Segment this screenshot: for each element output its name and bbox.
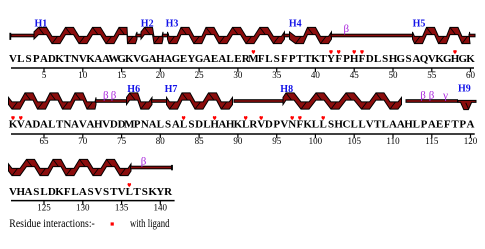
helix H5 ribbon (413, 27, 471, 43)
svg-text:65: 65 (40, 136, 50, 146)
svg-text:Residue interactions:-: Residue interactions:- (9, 218, 95, 230)
svg-text:45: 45 (350, 70, 360, 80)
svg-text:30: 30 (233, 70, 243, 80)
svg-text:135: 135 (115, 202, 129, 212)
svg-text:H3: H3 (166, 18, 179, 29)
svg-text:H9: H9 (458, 84, 471, 95)
svg-text:105: 105 (347, 136, 361, 146)
svg-text:80: 80 (156, 136, 166, 146)
svg-text:50: 50 (389, 70, 399, 80)
ligand-contact hearts row1: M32 Y42 F43 H45 F46 H58 (252, 50, 256, 54)
svg-text:β: β (420, 89, 426, 101)
svg-text:H2: H2 (141, 18, 154, 29)
coil 20-21 (163, 34, 169, 37)
svg-text:70: 70 (78, 136, 88, 146)
svg-text:KVADALTNAVAHVDDMPNALSALSDLHAHK: KVADALTNAVAHVDDMPNALSALSDLHAHKLRVDPVNFKL… (9, 119, 475, 131)
svg-text:H1: H1 (35, 18, 48, 29)
coil row3 (131, 166, 172, 169)
coil row2 d (406, 100, 458, 103)
svg-text:60: 60 (466, 70, 476, 80)
coil row2 b (152, 100, 168, 103)
coil tail 60 (469, 34, 475, 37)
helix H2 ribbon (141, 27, 163, 43)
helix H9 start (clipped at row end) (458, 100, 476, 109)
coil row2 a (96, 100, 128, 103)
svg-text:β: β (111, 89, 117, 101)
svg-text:H7: H7 (165, 84, 178, 95)
svg-text:95: 95 (272, 136, 282, 146)
svg-text:85: 85 (195, 136, 205, 146)
svg-text:115: 115 (425, 136, 439, 146)
svg-text:VHASLDKFLASVSTVLTSKYR: VHASLDKFLASVSTVLTSKYR (9, 186, 173, 198)
helix H4 ribbon (290, 27, 332, 43)
coil 36-37 (284, 34, 290, 37)
svg-text:with ligand: with ligand (130, 218, 170, 230)
coil 44-52 (331, 34, 413, 37)
helix H1 ribbon (34, 27, 137, 43)
helix H8 ribbon (283, 93, 402, 109)
helix H3 ribbon (168, 27, 285, 43)
svg-text:β: β (103, 89, 109, 101)
svg-text:35: 35 (272, 70, 282, 80)
svg-text:β: β (429, 89, 435, 101)
helix H6 ribbon (127, 93, 153, 109)
coil row2 c (234, 100, 284, 103)
ligand-contact heart row3: L136 (128, 183, 132, 187)
svg-text:120: 120 (464, 136, 478, 146)
svg-text:125: 125 (37, 202, 51, 212)
legend red dot (111, 222, 114, 225)
coil residues 1-3 (11, 34, 35, 37)
svg-text:75: 75 (117, 136, 127, 146)
helix H5 continuation ribbon (residues 61-?) (9, 93, 97, 109)
svg-text:25: 25 (195, 70, 205, 80)
svg-text:15: 15 (117, 70, 127, 80)
C-terminus end tick (171, 165, 173, 170)
svg-text:VLSPADKTNVKAAWGKVGAHAGEYGAEALE: VLSPADKTNVKAAWGKVGAHAGEYGAEALERMFLSFPTTK… (9, 53, 475, 65)
N-terminus start tick (9, 33, 11, 40)
helix H9 continuation ribbon (9, 159, 132, 175)
svg-text:55: 55 (427, 70, 437, 80)
svg-text:130: 130 (76, 202, 90, 212)
helix H7 ribbon (167, 93, 233, 109)
ligand-contact hearts row2: K61 V62 L83 H87 L91 V93 N97 F98 L101 (11, 116, 15, 120)
svg-text:110: 110 (386, 136, 400, 146)
svg-text:40: 40 (311, 70, 321, 80)
coil 17-18 (136, 34, 142, 37)
ruler row2 (11, 134, 475, 138)
svg-text:β: β (343, 23, 349, 35)
svg-text:H5: H5 (413, 18, 426, 29)
svg-text:90: 90 (233, 136, 243, 146)
svg-text:5: 5 (42, 70, 47, 80)
svg-text:H6: H6 (127, 84, 140, 95)
ruler row3 (11, 201, 175, 205)
svg-text:H4: H4 (289, 19, 302, 30)
ruler row1 (11, 68, 474, 72)
svg-text:20: 20 (156, 70, 166, 80)
svg-text:100: 100 (309, 136, 323, 146)
svg-text:140: 140 (154, 202, 168, 212)
svg-text:10: 10 (78, 70, 88, 80)
svg-text:β: β (141, 155, 147, 167)
svg-text:γ: γ (442, 89, 448, 101)
svg-text:H8: H8 (280, 84, 293, 95)
